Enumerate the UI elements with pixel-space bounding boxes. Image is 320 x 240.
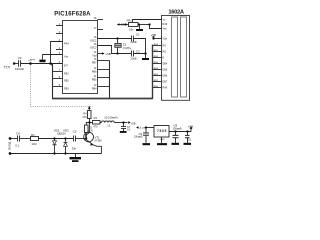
ground crystal caps: [142, 58, 149, 60]
wire pin13 rung: [98, 60, 110, 62]
wire Vdd pin14: [98, 53, 103, 55]
LCD inner window right: [181, 17, 187, 97]
transistor VT1 emitter arrow: [90, 143, 94, 146]
wire LCD tap DB6: [153, 75, 162, 77]
wire pin8 rung: [53, 78, 63, 80]
capacitor C1 plates: [131, 36, 133, 42]
svg-text:100: 100: [31, 142, 36, 146]
+5V arrow at 7805 output (pointing up): [190, 126, 193, 129]
wire pin18 stub: [98, 19, 104, 21]
wire R2 top to node: [86, 123, 89, 126]
svg-text:R/W: R/W: [163, 23, 168, 26]
wire C4 to R1: [20, 138, 31, 140]
wire pin3 stub: [51, 42, 63, 64]
svg-text:DB5: DB5: [163, 69, 168, 72]
svg-text:7805: 7805: [157, 129, 167, 133]
wire C10 branch: [187, 132, 189, 136]
wire pin12 rung: [98, 69, 110, 71]
svg-text:DB7: DB7: [163, 81, 168, 84]
ground bars (filled): [39, 29, 191, 162]
svg-text:+5В: +5В: [120, 24, 125, 27]
bus right ladder vertical: [109, 61, 111, 99]
wire LCD tap DB4: [153, 63, 162, 65]
ground Vss pin5: [39, 60, 45, 63]
wire TTL input to pin6: [14, 63, 18, 65]
wire pin1 stub: [56, 25, 63, 27]
diode VD1 leads: [54, 139, 56, 141]
capacitor C3 plates: [18, 60, 20, 66]
svg-text:20пФ: 20пФ: [131, 56, 137, 60]
svg-text:RB1: RB1: [64, 73, 69, 76]
wire R2 bottom to base: [85, 133, 87, 139]
svg-text:Vdd: Vdd: [163, 38, 168, 41]
+5V arrow at pin14 (pointing right): [102, 52, 105, 54]
pin labels PIC left: [64, 43, 69, 91]
capacitor C2 plates: [131, 51, 133, 57]
potentiometer PR1 body: [129, 23, 139, 27]
svg-text:Vdd: Vdd: [92, 55, 97, 58]
bus rail horizontal: [52, 98, 153, 100]
pin labels LCD: [163, 19, 168, 90]
wire TTL junction into bus: [51, 64, 53, 67]
wire pin17 stub: [98, 29, 104, 31]
svg-text:ТТЛ: ТТЛ: [3, 66, 9, 70]
svg-text:C3: C3: [18, 56, 22, 60]
svg-text:470: 470: [93, 125, 98, 129]
ground C8: [172, 143, 180, 145]
svg-text:ВХОД: ВХОД: [7, 142, 11, 150]
svg-text:RB3: RB3: [64, 88, 69, 91]
wire 7805 output: [169, 131, 191, 133]
svg-text:R4: R4: [83, 111, 87, 115]
svg-text:C5: C5: [73, 129, 77, 133]
+5V arrow after L1 (pointing right): [128, 121, 131, 123]
wire collector node to R3: [90, 122, 93, 124]
wire pot right to gnd junction: [138, 24, 150, 26]
wire R4 to collector node: [89, 119, 91, 123]
wire LCD tap RB0: [153, 45, 162, 47]
wire LCD tap RS: [153, 51, 162, 53]
bus lines (thick gray): [52, 45, 153, 99]
svg-text:33н: 33н: [72, 147, 77, 151]
+5V arrow at LCD Vdd (pointing down): [152, 36, 155, 38]
ground C10: [184, 143, 192, 145]
svg-text:RB7: RB7: [92, 62, 97, 65]
potentiometer PR1 wiper: [133, 20, 162, 23]
wire OSC1 pin16: [98, 38, 132, 40]
svg-text:C4: C4: [16, 132, 20, 136]
capacitor C5 plates: [73, 136, 75, 142]
svg-text:RB5: RB5: [92, 79, 97, 82]
capacitor C7 plates: [121, 126, 126, 128]
wire C9 to ground: [145, 135, 147, 143]
wire pot gnd drop: [139, 25, 141, 30]
svg-text:PIC16F628A: PIC16F628A: [54, 11, 91, 17]
svg-text:GND: GND: [160, 139, 165, 141]
IC U1 PIC16F628A box: [63, 21, 98, 94]
wire pin11 rung: [98, 77, 110, 79]
resistor R2 body: [85, 125, 89, 133]
svg-text:КД503А: КД503А: [57, 132, 66, 135]
diode VD1 symbol: [53, 141, 57, 145]
ground input stage: [70, 157, 82, 159]
svg-text:10-100мкГн: 10-100мкГн: [104, 115, 118, 119]
wire L1 to +5V node: [114, 122, 127, 124]
svg-text:R/W: R/W: [163, 87, 168, 90]
power input wire to 7805: [146, 127, 154, 129]
wire pin5 stub: [42, 54, 62, 56]
svg-text:+5В: +5В: [131, 122, 136, 126]
wire LCD tap DB5: [153, 69, 162, 71]
ground C7: [120, 131, 127, 133]
wire C8 branch: [175, 132, 177, 136]
svg-text:C1: C1: [136, 33, 140, 37]
+5V arrow at pot (pointing left): [117, 23, 120, 25]
svg-text:КТ368: КТ368: [95, 140, 103, 143]
wire input row: [10, 138, 18, 140]
svg-text:0,1: 0,1: [15, 143, 20, 147]
wire +5V arrow stem output: [190, 129, 192, 132]
wire C10 to ground: [187, 138, 189, 143]
pin labels PIC right: [90, 40, 97, 91]
svg-text:RS: RS: [163, 51, 167, 54]
svg-text:PR1: PR1: [127, 18, 133, 22]
wire pin4 stub: [56, 49, 63, 51]
shield dotted outline: [31, 65, 93, 107]
diode VD2 symbol: [64, 143, 68, 147]
svg-text:470: 470: [82, 115, 87, 119]
svg-text:RS: RS: [163, 45, 167, 48]
wire R1 to C5: [39, 138, 74, 140]
wire LCD tap RW: [153, 87, 162, 89]
resistor R1 body: [31, 137, 39, 141]
regulator U2 7805 box: [154, 126, 169, 138]
capacitor C10 plates: [185, 134, 190, 136]
svg-text:INT: INT: [64, 65, 68, 68]
wire LCD tap DB7: [153, 81, 162, 83]
pin numbers left: [59, 23, 61, 87]
svg-text:1602A: 1602A: [168, 9, 184, 15]
pin numbers right: [94, 17, 97, 87]
capacitor C4 plates: [17, 136, 19, 142]
wire 7805 gnd pin: [161, 137, 163, 143]
svg-text:+9..12В: +9..12В: [139, 128, 146, 130]
+5V arrow above R4: [88, 106, 91, 109]
LCD X1 1602A box: [162, 16, 190, 101]
wire LCD tap E: [153, 57, 162, 59]
wire pin7 rung: [53, 71, 63, 73]
svg-text:20пФ: 20пФ: [131, 40, 137, 44]
svg-text:+5В: +5В: [151, 33, 156, 37]
wire ground stub: [75, 154, 77, 158]
transistor VT1 emitter lead: [86, 139, 102, 153]
svg-text:RB2: RB2: [64, 80, 69, 83]
resistor R3 body: [93, 121, 101, 125]
svg-text:OSC2: OSC2: [90, 47, 97, 50]
shield vertical dotted: [30, 65, 32, 107]
inductor L1: [102, 121, 115, 123]
wire pin9 rung: [53, 86, 63, 88]
wire OSC2 pin15 step: [98, 46, 132, 54]
svg-text:100нФ: 100нФ: [15, 67, 25, 71]
wire ground rail bottom: [10, 153, 102, 155]
shield horizontal dotted: [31, 106, 93, 108]
svg-text:вход: вход: [30, 59, 35, 61]
svg-text:R3: R3: [94, 116, 98, 120]
wire OSC1 cap to ground drop: [134, 39, 146, 54]
svg-text:100мкФ: 100мкФ: [134, 136, 143, 139]
wire C9 branch: [145, 128, 147, 133]
+9V arrow at power input (pointing left): [136, 126, 139, 128]
wire pin2 stub: [56, 33, 63, 35]
wire +5V to LCD Vdd: [154, 38, 162, 40]
ground C9: [143, 143, 151, 145]
svg-text:100мкФ: 100мкФ: [172, 127, 181, 131]
crystal Z1 body: [115, 44, 121, 48]
ground 7805: [157, 143, 167, 145]
svg-text:OSC1: OSC1: [90, 40, 97, 43]
potentiometer PR1 wire +5V to left end: [119, 24, 129, 26]
wire C2 to ground point: [134, 54, 146, 59]
supply arrows: [88, 23, 193, 129]
svg-text:0,1: 0,1: [127, 128, 131, 132]
bus LCD vertical: [152, 45, 154, 99]
capacitor C8 plates: [173, 134, 179, 136]
LCD inner window left: [172, 17, 178, 97]
transistor VT1 circle: [84, 132, 94, 142]
svg-text:R1: R1: [31, 133, 35, 137]
ground pot: [136, 29, 143, 31]
crystal Z1 leads: [117, 39, 119, 44]
svg-text:DB4: DB4: [163, 63, 168, 66]
capacitor C7 leads: [123, 123, 125, 127]
svg-text:+5В: +5В: [105, 52, 110, 56]
svg-text:DB6: DB6: [163, 75, 168, 78]
svg-text:+5В: +5В: [188, 125, 193, 129]
wire pin10 rung: [98, 86, 110, 88]
svg-text:4 МГц: 4 МГц: [123, 46, 132, 50]
svg-text:C2: C2: [136, 49, 140, 53]
wire step down to LCD Vss pin: [150, 25, 162, 29]
svg-text:RA4: RA4: [64, 43, 69, 46]
resistor R4 body: [88, 111, 92, 119]
capacitor C9 plates: [143, 132, 149, 134]
bus left vertical: [52, 64, 54, 98]
bus tap labels: [154, 44, 159, 88]
transistor VT1 base bar: [85, 134, 87, 140]
transistor VT1 collector lead: [86, 123, 90, 136]
wire C8 to ground: [175, 138, 177, 143]
svg-text:RB4: RB4: [92, 88, 97, 91]
diode VD2 leads: [65, 139, 67, 142]
wire C5 to base: [76, 138, 86, 140]
svg-text:RB6: RB6: [92, 71, 97, 74]
